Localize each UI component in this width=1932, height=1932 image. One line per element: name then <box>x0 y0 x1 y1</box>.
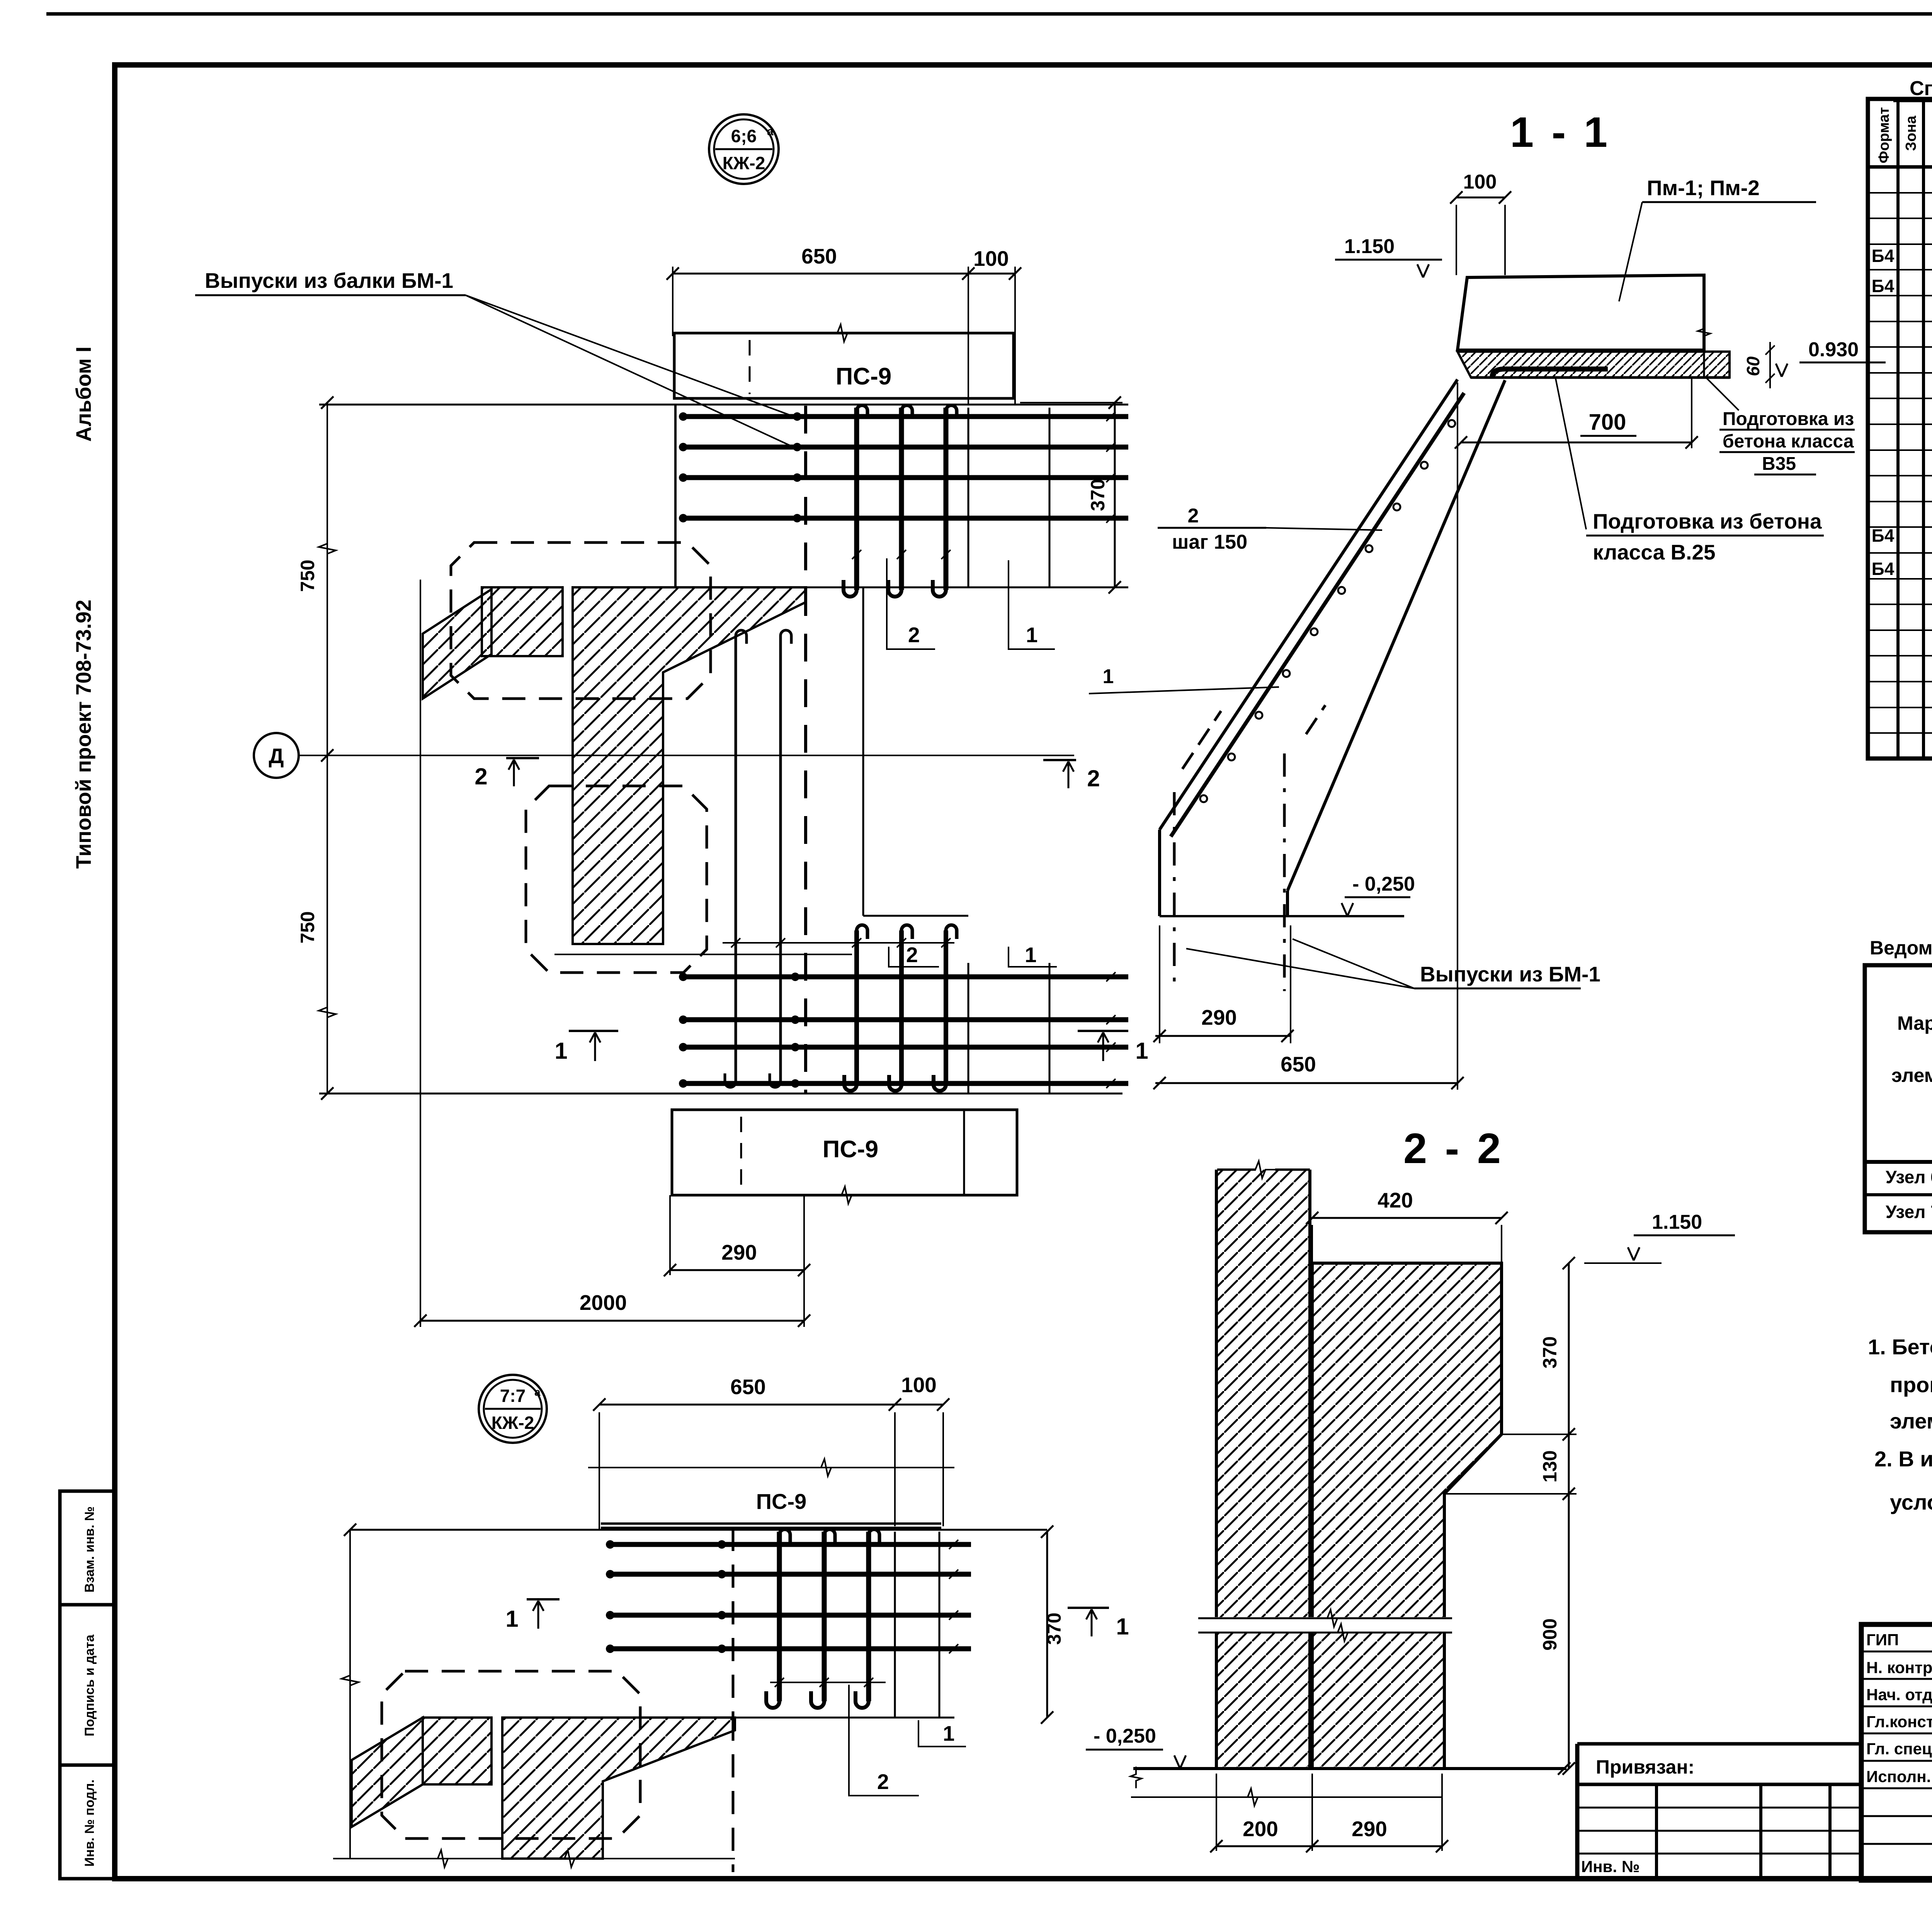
svg-text:шаг 150: шаг 150 <box>1172 531 1247 553</box>
svg-text:370: 370 <box>1087 479 1109 511</box>
svg-text:КЖ-2: КЖ-2 <box>723 153 765 173</box>
svg-text:условно не показаны.: условно не показаны. <box>1890 1490 1932 1514</box>
svg-text:Подпись и дата: Подпись и дата <box>82 1634 97 1736</box>
svg-text:1 - 1: 1 - 1 <box>1510 109 1611 156</box>
svg-text:Альбом I: Альбом I <box>71 347 95 442</box>
svg-text:Выпуски из БМ-1: Выпуски из БМ-1 <box>1420 962 1600 986</box>
svg-text:290: 290 <box>1352 1817 1387 1841</box>
svg-text:элементов разделительных с: элементов разделительных стен. <box>1890 1409 1932 1433</box>
svg-text:2: 2 <box>908 623 920 647</box>
svg-text:7:7: 7:7 <box>500 1386 526 1406</box>
svg-text:Гл.констр: Гл.констр <box>1866 1713 1932 1731</box>
svg-text:- 0,250: - 0,250 <box>1094 1725 1156 1747</box>
svg-text:ПС-9: ПС-9 <box>756 1489 806 1514</box>
svg-text:100: 100 <box>973 247 1009 270</box>
svg-text:ПС-9: ПС-9 <box>836 363 891 390</box>
svg-text:100: 100 <box>1463 171 1497 193</box>
svg-text:Д: Д <box>269 744 284 768</box>
svg-text:Узел 7 ; 7: Узел 7 ; 7 <box>1886 1202 1932 1222</box>
svg-text:В35: В35 <box>1762 454 1796 474</box>
svg-text:750: 750 <box>297 911 318 943</box>
svg-text:КЖ-2: КЖ-2 <box>492 1413 534 1433</box>
svg-text:Марка: Марка <box>1897 1012 1932 1034</box>
svg-text:2: 2 <box>906 943 918 967</box>
svg-text:Подготовка из: Подготовка из <box>1723 409 1854 429</box>
svg-text:Ведомость расхода стали: Ведомость расхода стали на элемент, кг <box>1870 937 1932 959</box>
svg-text:1.150: 1.150 <box>1652 1211 1702 1233</box>
svg-text:Выпуски из балки БМ-1: Выпуски из балки БМ-1 <box>205 269 453 293</box>
svg-text:750: 750 <box>297 560 318 592</box>
svg-text:370: 370 <box>1043 1612 1065 1645</box>
svg-text:Инв. №: Инв. № <box>1581 1857 1640 1876</box>
svg-text:элемента: элемента <box>1891 1065 1932 1086</box>
svg-text:290: 290 <box>721 1240 757 1264</box>
svg-text:Б4: Б4 <box>1872 276 1895 296</box>
svg-text:ГИП: ГИП <box>1866 1631 1899 1649</box>
svg-text:Гл. спец.: Гл. спец. <box>1866 1740 1932 1758</box>
svg-text:а: а <box>767 125 774 138</box>
svg-text:Зона: Зона <box>1903 116 1919 151</box>
svg-text:130: 130 <box>1539 1450 1561 1482</box>
svg-text:Инв. № подл.: Инв. № подл. <box>82 1779 97 1867</box>
svg-text:Формат: Формат <box>1876 107 1892 163</box>
svg-text:2. В изображениях узлов 6: 2. В изображениях узлов 6 ; 6 <box>1874 1447 1932 1471</box>
svg-text:2: 2 <box>1087 765 1100 791</box>
svg-text:650: 650 <box>1281 1052 1316 1076</box>
svg-text:1: 1 <box>554 1038 567 1064</box>
svg-text:1: 1 <box>1135 1038 1148 1064</box>
svg-text:100: 100 <box>901 1373 937 1397</box>
svg-text:Подготовка из бетона: Подготовка из бетона <box>1593 509 1822 533</box>
svg-text:200: 200 <box>1243 1817 1278 1841</box>
svg-text:2000: 2000 <box>580 1291 627 1315</box>
svg-text:6;6: 6;6 <box>731 126 757 146</box>
svg-text:0.930: 0.930 <box>1808 338 1859 361</box>
svg-text:650: 650 <box>801 244 837 268</box>
svg-text:1: 1 <box>505 1606 518 1632</box>
svg-text:Пм-1; Пм-2: Пм-1; Пм-2 <box>1647 176 1760 200</box>
svg-text:класса В.25: класса В.25 <box>1593 540 1716 564</box>
svg-text:1. Бетонирование монолитных: 1. Бетонирование монолитных участков по … <box>1868 1335 1932 1359</box>
svg-text:Узел 6 ; 6: Узел 6 ; 6 <box>1886 1167 1932 1187</box>
svg-text:1: 1 <box>1116 1614 1129 1639</box>
svg-text:Б4: Б4 <box>1872 559 1895 579</box>
svg-text:Б4: Б4 <box>1872 246 1895 266</box>
svg-text:Взам. инв. №: Взам. инв. № <box>82 1506 97 1592</box>
svg-text:Б4: Б4 <box>1872 526 1895 546</box>
svg-text:ПС-9: ПС-9 <box>823 1136 878 1163</box>
svg-text:Исполн.: Исполн. <box>1866 1767 1931 1786</box>
svg-text:1: 1 <box>1025 943 1037 967</box>
svg-text:бетона класса: бетона класса <box>1723 431 1854 452</box>
svg-text:2: 2 <box>877 1770 889 1794</box>
svg-text:Спецификация: Спецификация <box>1910 77 1932 100</box>
svg-text:Нач. отд.: Нач. отд. <box>1866 1685 1932 1704</box>
svg-text:2: 2 <box>1188 505 1199 527</box>
svg-text:производить после установк: производить после установки и замоноличи… <box>1890 1372 1932 1397</box>
svg-text:1: 1 <box>1026 623 1038 647</box>
svg-text:370: 370 <box>1539 1336 1561 1368</box>
svg-text:1: 1 <box>1103 665 1114 688</box>
svg-text:900: 900 <box>1539 1618 1561 1650</box>
svg-text:60: 60 <box>1743 356 1763 376</box>
svg-text:Н. контр.: Н. контр. <box>1866 1658 1932 1677</box>
svg-text:- 0,250: - 0,250 <box>1352 873 1415 895</box>
svg-text:а: а <box>534 1386 541 1398</box>
svg-text:700: 700 <box>1589 410 1626 435</box>
svg-text:1.150: 1.150 <box>1344 235 1395 258</box>
svg-text:290: 290 <box>1201 1005 1237 1029</box>
svg-text:Типовой проект 708-73.92: Типовой проект 708-73.92 <box>71 600 95 869</box>
svg-text:420: 420 <box>1378 1188 1413 1212</box>
svg-text:1: 1 <box>943 1721 955 1745</box>
svg-text:2: 2 <box>474 764 487 789</box>
svg-text:650: 650 <box>730 1375 766 1399</box>
svg-text:2 - 2: 2 - 2 <box>1403 1125 1504 1172</box>
svg-text:Привязан:: Привязан: <box>1596 1756 1694 1778</box>
